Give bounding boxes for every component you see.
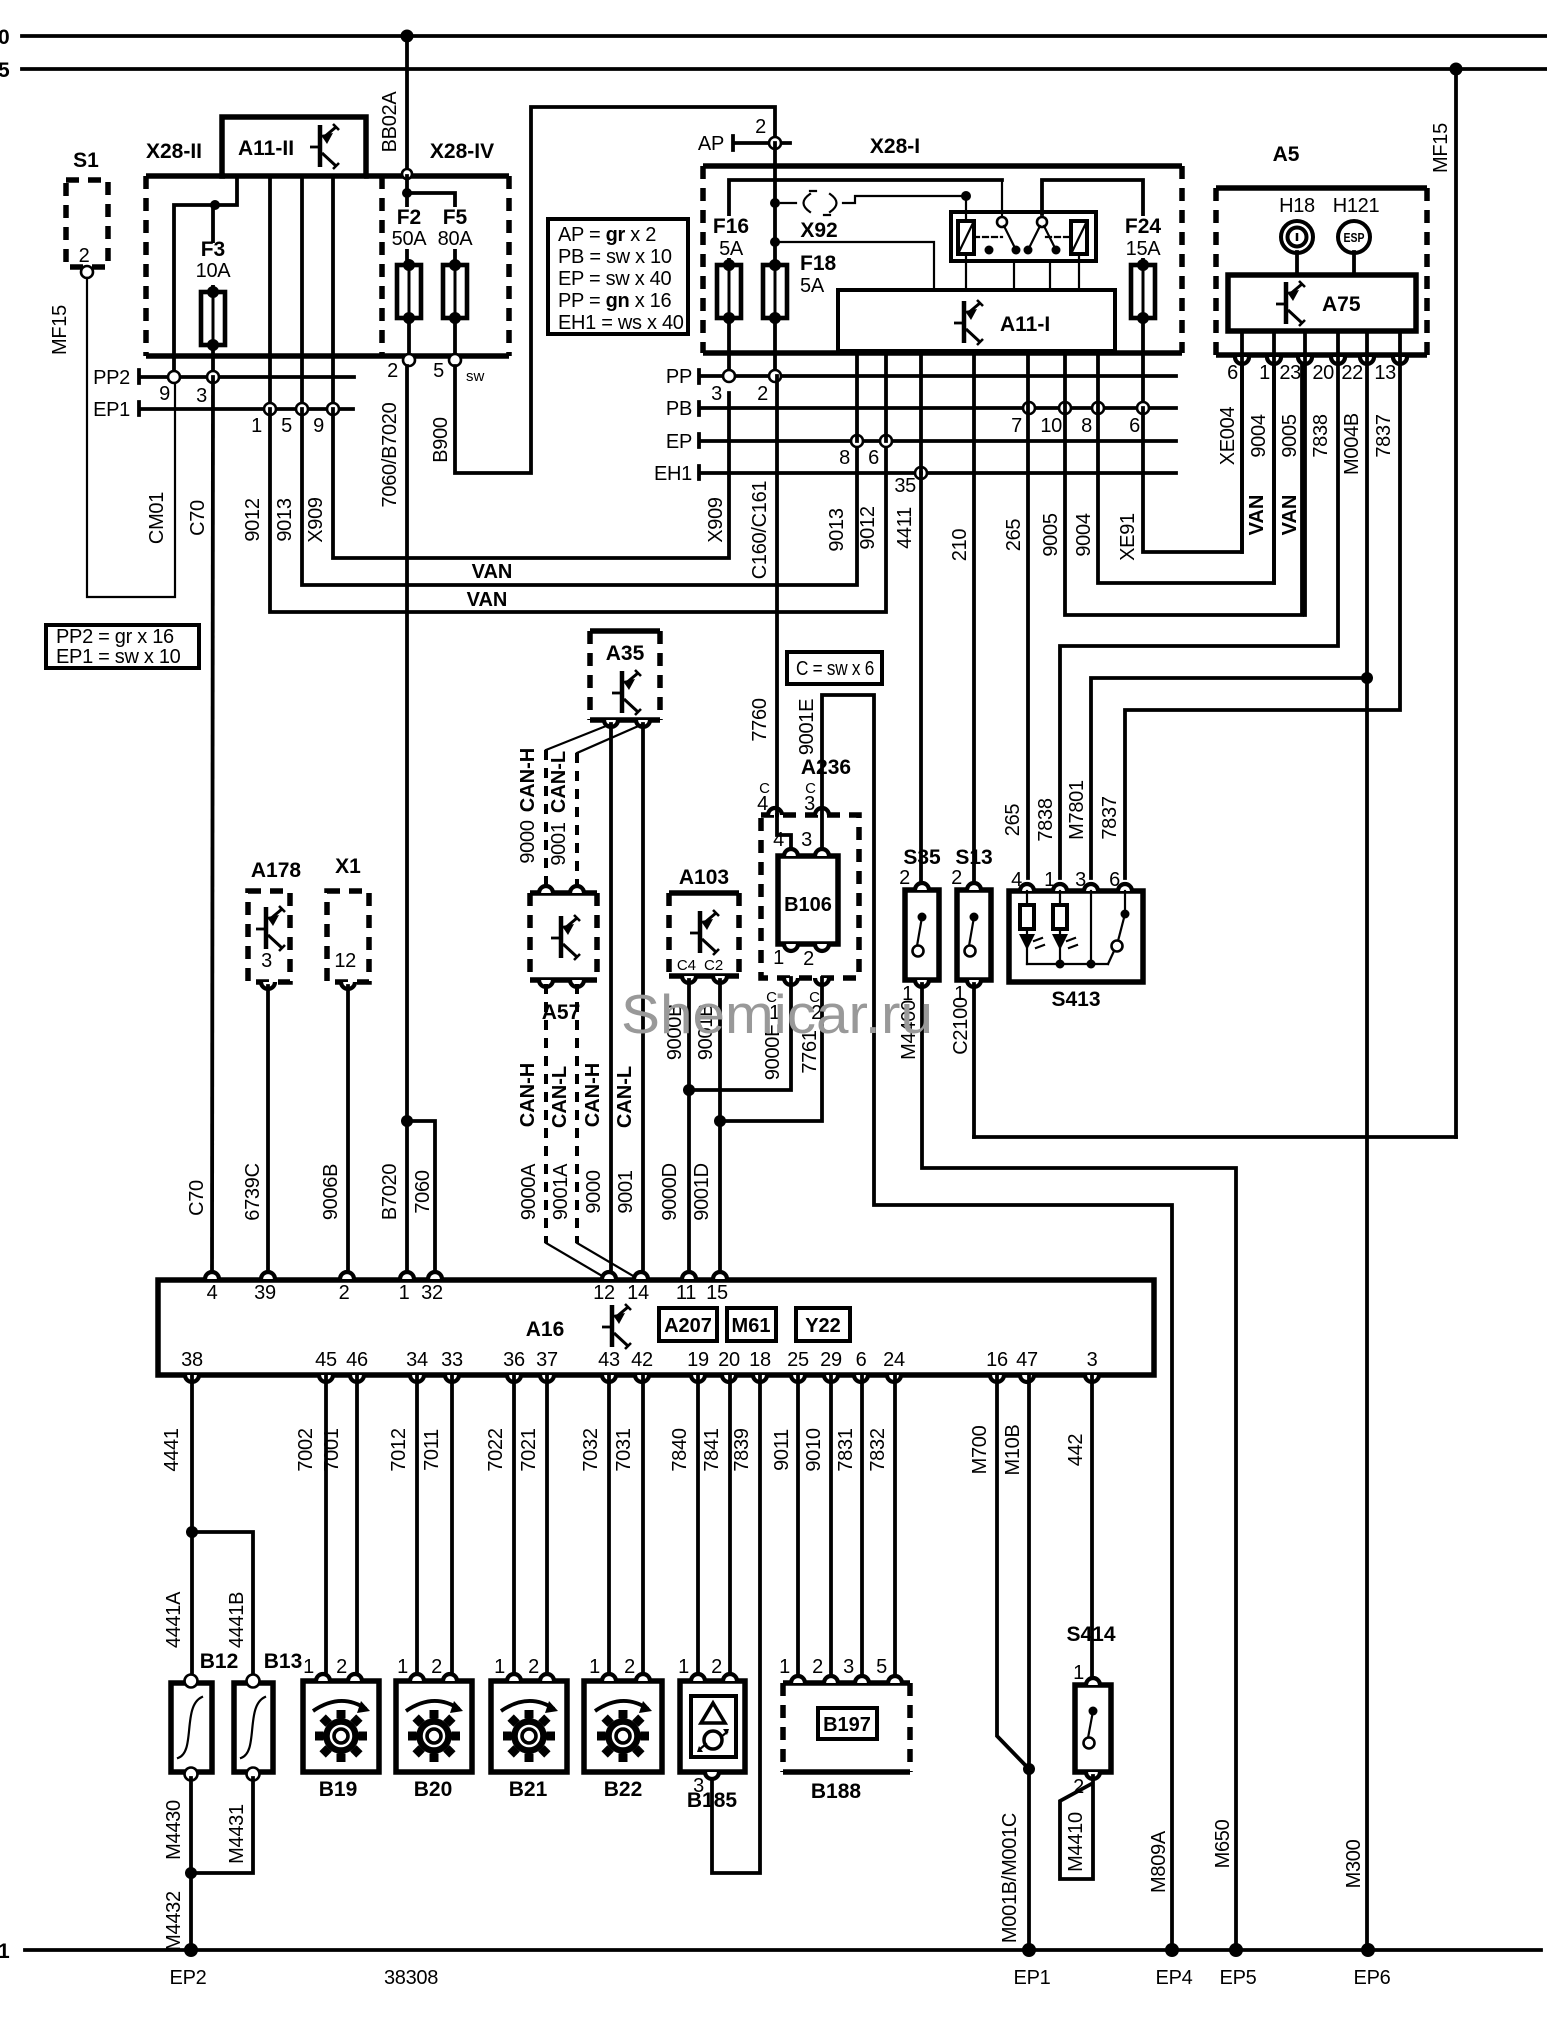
svg-text:7022: 7022 [485, 1428, 507, 1471]
svg-text:5: 5 [433, 360, 444, 382]
svg-text:80A: 80A [438, 228, 474, 250]
svg-text:EP2: EP2 [170, 1967, 207, 1989]
svg-text:1: 1 [0, 1940, 10, 1963]
svg-text:B21: B21 [509, 1778, 548, 1801]
svg-text:1: 1 [1073, 1662, 1084, 1684]
svg-text:4441B: 4441B [226, 1592, 248, 1648]
svg-text:42: 42 [631, 1349, 653, 1371]
svg-text:2: 2 [528, 1656, 539, 1678]
svg-text:B197: B197 [823, 1714, 871, 1736]
svg-text:7831: 7831 [835, 1428, 857, 1471]
svg-text:10A: 10A [196, 260, 232, 282]
svg-text:Y22: Y22 [805, 1315, 841, 1337]
svg-text:50A: 50A [392, 228, 428, 250]
svg-text:7760: 7760 [749, 698, 771, 741]
svg-text:9006B: 9006B [320, 1164, 342, 1220]
svg-text:C160/C161: C160/C161 [749, 481, 771, 580]
svg-text:M61: M61 [732, 1315, 771, 1337]
svg-text:9013: 9013 [826, 508, 848, 551]
svg-text:A35: A35 [606, 642, 645, 665]
svg-text:MF15: MF15 [1430, 123, 1452, 173]
svg-text:A11-I: A11-I [1000, 313, 1050, 336]
svg-text:6: 6 [1227, 362, 1238, 384]
svg-text:7060/B7020: 7060/B7020 [379, 402, 401, 507]
svg-text:1: 1 [397, 1656, 408, 1678]
svg-text:37: 37 [536, 1349, 558, 1371]
svg-text:EH1 = ws x 40: EH1 = ws x 40 [558, 312, 684, 334]
svg-text:B188: B188 [811, 1780, 862, 1803]
svg-text:265: 265 [1002, 804, 1024, 837]
svg-text:19: 19 [687, 1349, 709, 1371]
svg-text:PP = gn x 16: PP = gn x 16 [558, 290, 672, 312]
svg-text:32: 32 [421, 1282, 443, 1304]
svg-text:A178: A178 [251, 859, 302, 882]
svg-text:M300: M300 [1343, 1839, 1365, 1888]
svg-text:7832: 7832 [867, 1428, 889, 1471]
svg-text:H18: H18 [1279, 195, 1315, 217]
svg-text:3: 3 [711, 383, 722, 405]
svg-text:CAN-L: CAN-L [549, 1066, 571, 1128]
svg-text:CAN-H: CAN-H [517, 1063, 539, 1127]
svg-text:C4: C4 [677, 957, 696, 974]
svg-text:X28-II: X28-II [146, 140, 202, 163]
svg-text:1: 1 [251, 415, 262, 437]
svg-text:M4432: M4432 [163, 1891, 185, 1951]
svg-text:7837: 7837 [1099, 796, 1121, 839]
svg-text:23: 23 [1279, 362, 1301, 384]
svg-text:9: 9 [159, 383, 170, 405]
svg-text:36: 36 [503, 1349, 525, 1371]
svg-text:VAN: VAN [467, 589, 508, 611]
svg-text:F18: F18 [800, 252, 837, 275]
svg-text:XE91: XE91 [1117, 513, 1139, 561]
svg-text:7011: 7011 [421, 1429, 443, 1471]
svg-text:PP2: PP2 [93, 367, 130, 389]
svg-text:442: 442 [1065, 1434, 1087, 1467]
svg-text:AP = gr x 2: AP = gr x 2 [558, 224, 656, 246]
svg-text:2: 2 [336, 1656, 347, 1678]
svg-text:265: 265 [1003, 519, 1025, 552]
svg-text:8: 8 [1081, 415, 1092, 437]
svg-text:1: 1 [494, 1656, 505, 1678]
svg-text:X28-I: X28-I [870, 135, 920, 158]
svg-text:PB = sw x 10: PB = sw x 10 [558, 246, 672, 268]
svg-text:AP: AP [698, 133, 724, 155]
svg-text:F5: F5 [443, 206, 468, 229]
svg-text:X909: X909 [705, 497, 727, 543]
svg-text:PP2 = gr x 16: PP2 = gr x 16 [56, 626, 174, 648]
svg-text:47: 47 [1016, 1349, 1038, 1371]
svg-text:2: 2 [431, 1656, 442, 1678]
svg-text:M001B/M001C: M001B/M001C [999, 1813, 1021, 1943]
svg-text:16: 16 [986, 1349, 1008, 1371]
svg-text:EP: EP [666, 431, 692, 453]
svg-text:A11-II: A11-II [238, 137, 294, 160]
svg-text:S35: S35 [903, 846, 941, 869]
svg-text:6: 6 [1129, 415, 1140, 437]
svg-text:M10B: M10B [1002, 1424, 1024, 1475]
svg-text:4: 4 [1011, 869, 1022, 891]
svg-text:PP: PP [666, 366, 692, 388]
svg-text:9001A: 9001A [550, 1163, 572, 1220]
svg-text:5: 5 [281, 415, 292, 437]
svg-text:9000D: 9000D [659, 1163, 681, 1220]
svg-text:22: 22 [1341, 362, 1363, 384]
svg-text:B22: B22 [604, 1778, 643, 1801]
svg-text:6: 6 [1109, 869, 1120, 891]
svg-text:5A: 5A [800, 275, 825, 297]
svg-text:9005: 9005 [1040, 513, 1062, 556]
svg-text:7840: 7840 [669, 1428, 691, 1471]
svg-text:CM01: CM01 [146, 492, 168, 544]
svg-text:10: 10 [1040, 415, 1062, 437]
svg-text:S1: S1 [73, 149, 99, 172]
svg-text:14: 14 [627, 1282, 649, 1304]
svg-text:1: 1 [1044, 869, 1055, 891]
svg-text:7060: 7060 [412, 1170, 434, 1213]
svg-text:20: 20 [718, 1349, 740, 1371]
svg-text:F2: F2 [397, 206, 422, 229]
svg-text:X909: X909 [305, 497, 327, 543]
svg-text:F24: F24 [1125, 215, 1162, 238]
svg-text:7: 7 [1011, 415, 1022, 437]
svg-text:12: 12 [593, 1282, 615, 1304]
svg-text:4: 4 [207, 1282, 218, 1304]
svg-text:7002: 7002 [295, 1428, 317, 1471]
svg-text:7838: 7838 [1035, 798, 1057, 841]
svg-text:38: 38 [181, 1349, 203, 1371]
svg-text:8: 8 [839, 447, 850, 469]
svg-text:7031: 7031 [613, 1428, 635, 1471]
svg-text:M004B: M004B [1341, 413, 1363, 475]
svg-text:B900: B900 [430, 417, 452, 463]
svg-text:25: 25 [787, 1349, 809, 1371]
svg-text:S413: S413 [1051, 988, 1100, 1011]
svg-text:9012: 9012 [857, 506, 879, 549]
svg-text:M809A: M809A [1148, 1830, 1170, 1893]
svg-text:24: 24 [883, 1349, 905, 1371]
svg-text:2: 2 [803, 948, 814, 970]
svg-text:2: 2 [79, 245, 90, 267]
svg-text:38308: 38308 [384, 1967, 438, 1989]
svg-text:MF15: MF15 [49, 305, 71, 355]
svg-text:29: 29 [820, 1349, 842, 1371]
svg-text:2: 2 [387, 360, 398, 382]
svg-text:1: 1 [1259, 362, 1270, 384]
svg-text:9: 9 [313, 415, 324, 437]
svg-text:F3: F3 [201, 238, 226, 261]
svg-text:43: 43 [598, 1349, 620, 1371]
svg-text:B20: B20 [414, 1778, 453, 1801]
svg-text:sw: sw [466, 368, 485, 385]
svg-text:B185: B185 [687, 1789, 738, 1812]
svg-text:20: 20 [1312, 362, 1334, 384]
svg-text:M4431: M4431 [226, 1804, 248, 1864]
svg-text:35: 35 [894, 475, 916, 497]
svg-text:EP1: EP1 [93, 399, 130, 421]
svg-text:2: 2 [339, 1282, 350, 1304]
svg-text:4: 4 [757, 793, 768, 815]
svg-text:M4410: M4410 [1065, 1812, 1087, 1872]
svg-text:5A: 5A [719, 238, 744, 260]
svg-text:S13: S13 [955, 846, 992, 869]
svg-text:7839: 7839 [731, 1428, 753, 1471]
svg-text:EP6: EP6 [1354, 1967, 1391, 1989]
svg-text:9011: 9011 [771, 1429, 793, 1471]
svg-text:9012: 9012 [242, 498, 264, 541]
svg-text:4441: 4441 [161, 1428, 183, 1471]
svg-text:33: 33 [441, 1349, 463, 1371]
svg-text:1: 1 [779, 1656, 790, 1678]
svg-text:VAN: VAN [472, 561, 513, 583]
svg-text:4411: 4411 [894, 507, 916, 549]
svg-text:C70: C70 [186, 1180, 208, 1216]
svg-text:A16: A16 [526, 1318, 565, 1341]
svg-text:15A: 15A [1126, 238, 1162, 260]
svg-text:S414: S414 [1066, 1623, 1115, 1646]
svg-text:7841: 7841 [701, 1428, 723, 1471]
svg-text:2: 2 [899, 867, 910, 889]
svg-text:EP1: EP1 [1014, 1967, 1051, 1989]
svg-text:BB02A: BB02A [379, 91, 401, 153]
svg-text:3: 3 [843, 1656, 854, 1678]
svg-text:X1: X1 [335, 855, 361, 878]
svg-text:X92: X92 [800, 219, 837, 242]
svg-text:0: 0 [0, 26, 10, 49]
svg-text:M650: M650 [1212, 1819, 1234, 1868]
svg-text:9001: 9001 [615, 1170, 637, 1213]
svg-text:12: 12 [334, 950, 356, 972]
svg-text:XE004: XE004 [1217, 407, 1239, 466]
svg-text:3: 3 [261, 950, 272, 972]
svg-text:EP5: EP5 [1220, 1967, 1257, 1989]
svg-text:1: 1 [303, 1656, 314, 1678]
svg-text:6: 6 [868, 447, 879, 469]
svg-text:C2100: C2100 [950, 997, 972, 1055]
svg-text:9001E: 9001E [796, 699, 818, 755]
svg-text:CAN-L: CAN-L [548, 751, 570, 813]
svg-text:M7801: M7801 [1066, 780, 1088, 840]
svg-text:B19: B19 [319, 1778, 358, 1801]
svg-text:EH1: EH1 [654, 463, 692, 485]
svg-text:1: 1 [773, 947, 784, 969]
svg-text:A236: A236 [801, 756, 851, 779]
svg-text:3: 3 [804, 793, 815, 815]
svg-text:3: 3 [1087, 1349, 1098, 1371]
svg-text:34: 34 [406, 1349, 428, 1371]
svg-text:A207: A207 [664, 1315, 712, 1337]
svg-text:6: 6 [856, 1349, 867, 1371]
svg-text:6739C: 6739C [242, 1163, 264, 1220]
svg-text:9001D: 9001D [691, 1163, 713, 1220]
svg-text:9004: 9004 [1073, 513, 1095, 556]
svg-text:A75: A75 [1322, 293, 1361, 316]
svg-text:5: 5 [876, 1656, 887, 1678]
svg-text:9005: 9005 [1279, 414, 1301, 457]
svg-text:39: 39 [254, 1282, 276, 1304]
svg-text:7021: 7021 [518, 1428, 540, 1471]
svg-text:C70: C70 [187, 500, 209, 536]
svg-text:11: 11 [676, 1282, 696, 1304]
svg-text:5: 5 [0, 59, 10, 82]
svg-text:A5: A5 [1273, 143, 1300, 166]
svg-text:9004: 9004 [1248, 414, 1270, 457]
svg-text:B12: B12 [200, 1650, 239, 1673]
svg-text:X28-IV: X28-IV [430, 140, 494, 163]
svg-text:45: 45 [315, 1349, 337, 1371]
svg-text:CAN-L: CAN-L [614, 1066, 636, 1128]
svg-text:2: 2 [711, 1656, 722, 1678]
svg-text:B7020: B7020 [379, 1164, 401, 1221]
svg-text:7001: 7001 [321, 1428, 343, 1471]
svg-text:CAN-H: CAN-H [582, 1063, 604, 1127]
svg-text:M700: M700 [969, 1425, 991, 1474]
svg-text:2: 2 [755, 116, 766, 138]
svg-text:7838: 7838 [1310, 414, 1332, 457]
svg-text:2: 2 [624, 1656, 635, 1678]
svg-text:B13: B13 [264, 1650, 303, 1673]
svg-text:1: 1 [678, 1656, 689, 1678]
svg-text:C2: C2 [704, 957, 723, 974]
svg-text:1: 1 [399, 1282, 410, 1304]
svg-text:9000: 9000 [517, 820, 539, 863]
svg-text:18: 18 [749, 1349, 771, 1371]
svg-text:H121: H121 [1333, 195, 1380, 217]
svg-text:9010: 9010 [803, 1428, 825, 1471]
svg-text:7032: 7032 [580, 1428, 602, 1471]
svg-text:46: 46 [346, 1349, 368, 1371]
svg-text:VAN: VAN [1246, 495, 1268, 536]
svg-text:9001: 9001 [548, 822, 570, 865]
svg-text:1: 1 [589, 1656, 600, 1678]
svg-text:2: 2 [951, 867, 962, 889]
svg-text:C = sw x 6: C = sw x 6 [796, 658, 874, 680]
svg-text:4441A: 4441A [163, 1591, 185, 1648]
svg-text:13: 13 [1374, 362, 1396, 384]
svg-text:7012: 7012 [388, 1428, 410, 1471]
svg-text:9013: 9013 [274, 498, 296, 541]
svg-text:2: 2 [812, 1656, 823, 1678]
svg-text:3: 3 [1075, 869, 1086, 891]
svg-text:M4430: M4430 [163, 1800, 185, 1860]
svg-text:ESP: ESP [1344, 230, 1365, 245]
svg-text:4: 4 [773, 829, 784, 851]
svg-text:F16: F16 [713, 215, 749, 238]
svg-text:3: 3 [801, 829, 812, 851]
svg-text:9000: 9000 [583, 1170, 605, 1213]
svg-text:Shemicar.ru: Shemicar.ru [621, 983, 933, 1045]
svg-text:PB: PB [666, 398, 692, 420]
svg-text:EP = sw x 40: EP = sw x 40 [558, 268, 671, 290]
svg-text:2: 2 [757, 383, 768, 405]
svg-text:VAN: VAN [1279, 495, 1301, 536]
svg-text:EP1 = sw x 10: EP1 = sw x 10 [56, 646, 181, 668]
svg-text:15: 15 [706, 1282, 728, 1304]
svg-text:210: 210 [949, 529, 971, 562]
svg-text:B106: B106 [784, 894, 832, 916]
svg-text:A103: A103 [679, 866, 729, 889]
svg-text:CAN-H: CAN-H [517, 748, 539, 812]
svg-text:7837: 7837 [1373, 414, 1395, 457]
svg-text:EP4: EP4 [1156, 1967, 1193, 1989]
svg-text:3: 3 [196, 385, 207, 407]
svg-text:9000A: 9000A [518, 1163, 540, 1220]
